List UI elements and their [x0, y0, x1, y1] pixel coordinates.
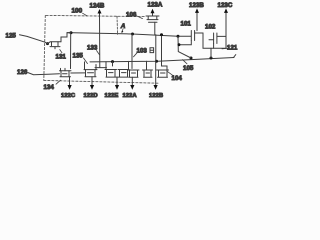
- arrow 122E: [115, 85, 119, 90]
- node dot input 125: [46, 42, 49, 45]
- wire drain 102 down: [225, 36, 227, 48]
- node dot bus x112: [111, 60, 114, 63]
- svg-text:121: 121: [227, 45, 238, 52]
- svg-text:122B: 122B: [149, 93, 163, 99]
- wire x211 to bus: [210, 48, 212, 58]
- leader of label 131: [60, 50, 62, 53]
- wire vertical from x70 dot down to transistor 134: [70, 33, 72, 69]
- dashed section line A: [116, 16, 119, 34]
- svg-text:122D: 122D: [84, 93, 98, 99]
- svg-text:131: 131: [56, 54, 67, 61]
- svg-text:126: 126: [17, 69, 28, 76]
- svg-text:125: 125: [6, 32, 17, 39]
- transistor 104 left half: [143, 61, 153, 77]
- leader of label 106: [137, 16, 143, 19]
- transistor 104 right half: [156, 36, 169, 85]
- arrow 124B: [99, 13, 101, 16]
- transistor pair under 122E: [105, 61, 129, 85]
- svg-text:106: 106: [126, 11, 137, 18]
- node dot bus x211: [210, 57, 213, 60]
- leader of label 103: [134, 53, 138, 57]
- svg-text:134: 134: [44, 84, 55, 91]
- svg-text:122C: 122C: [61, 93, 76, 99]
- svg-text:101: 101: [181, 20, 192, 27]
- wire gate bus x179: [178, 36, 191, 58]
- svg-text:123A: 123A: [148, 2, 163, 9]
- arrow 122C: [69, 78, 71, 86]
- wire y48: [203, 33, 226, 48]
- gate structure 103: [150, 48, 154, 53]
- svg-text:123C: 123C: [218, 2, 233, 9]
- svg-text:104: 104: [172, 75, 183, 82]
- wire lead-in 126: [28, 73, 60, 75]
- dashed box 100 top border: [46, 15, 145, 16]
- transistor under 122A: [128, 70, 139, 85]
- leader of label 134: [56, 80, 61, 84]
- arrow under label A: [121, 29, 124, 32]
- wire elbow from main wire to transistor 131: [61, 33, 71, 42]
- leader of label 100: [83, 13, 88, 16]
- wire 124B vertical (labelled 133): [99, 16, 101, 68]
- node dot on main wire x178: [177, 35, 180, 38]
- svg-text:105: 105: [183, 65, 194, 72]
- svg-text:124B: 124B: [90, 3, 105, 10]
- transistor 102: [209, 33, 226, 48]
- node dot x179: [178, 43, 181, 46]
- leader of label 133: [97, 51, 100, 55]
- node dot on main wire x70: [70, 31, 73, 34]
- transistor 134: [60, 68, 86, 77]
- svg-text:135: 135: [73, 53, 84, 60]
- leader of label 135: [84, 58, 88, 64]
- leader of label 121: [222, 47, 228, 50]
- svg-text:122E: 122E: [105, 93, 119, 99]
- transistor 101: [180, 31, 204, 45]
- node dot bus x191: [190, 57, 193, 60]
- dashed box 100 left border: [44, 15, 46, 80]
- svg-text:102: 102: [205, 23, 216, 30]
- arrow 122D: [90, 85, 94, 90]
- transistor 106: [146, 16, 159, 35]
- arrow 122B: [154, 85, 158, 90]
- node dot on main wire x132: [131, 33, 134, 36]
- wire lead-in 125: [20, 35, 48, 44]
- svg-text:123B: 123B: [189, 2, 204, 9]
- transistor 135: [84, 62, 97, 85]
- wire link x155.8 between main wire and bus: [155, 35, 157, 61]
- svg-text:103: 103: [137, 47, 148, 54]
- svg-text:122A: 122A: [123, 93, 138, 99]
- bus end hook: [234, 55, 236, 58]
- arrow 123C: [225, 12, 227, 36]
- node dot on main wire x161: [160, 33, 163, 36]
- arrow 123A: [152, 13, 154, 16]
- leader of label 104: [168, 72, 173, 76]
- arrow 123B: [196, 12, 198, 30]
- svg-text:100: 100: [72, 8, 83, 15]
- wire drain link x132 down: [131, 34, 133, 69]
- leader of label 105: [183, 60, 188, 64]
- main horizontal wire (node 124B): [67, 33, 178, 37]
- node dot bus x156: [155, 60, 158, 63]
- lower bus wire (node 105): [90, 58, 234, 62]
- transistor 131: [48, 42, 62, 49]
- arrow 122A: [130, 85, 134, 90]
- dashed box 100 bottom border: [44, 80, 158, 83]
